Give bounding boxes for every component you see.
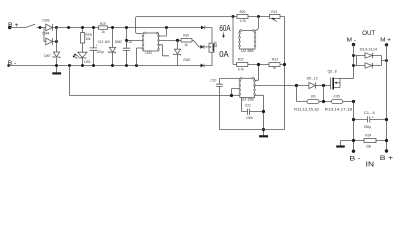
svg-text:330µ: 330µ: [364, 125, 371, 129]
svg-text:B +: B +: [380, 155, 393, 162]
svg-text:1k: 1k: [101, 30, 105, 34]
svg-text:R11,12,15,16: R11,12,15,16: [294, 108, 319, 112]
svg-text:U3 358: U3 358: [242, 97, 254, 101]
svg-text:CW2: CW2: [183, 58, 190, 62]
svg-text:+: +: [96, 43, 98, 47]
svg-text:R19: R19: [100, 22, 106, 26]
svg-text:M +: M +: [380, 37, 391, 43]
svg-text:100n: 100n: [246, 116, 253, 120]
svg-text:B -: B -: [350, 156, 361, 163]
svg-text:R23: R23: [272, 58, 278, 62]
svg-text:10R: 10R: [214, 41, 218, 48]
svg-text:CW4: CW4: [42, 32, 49, 36]
svg-text:R20: R20: [240, 10, 246, 14]
svg-text:R21: R21: [271, 10, 277, 14]
svg-text:C10: C10: [210, 78, 216, 82]
svg-text:U2 358: U2 358: [241, 49, 254, 53]
svg-text:U41: U41: [145, 51, 152, 55]
svg-text:OUT: OUT: [362, 31, 375, 37]
svg-text:+: +: [372, 115, 374, 119]
svg-text:D3,4,13,14: D3,4,13,14: [360, 47, 378, 51]
svg-text:R13,14,17,18: R13,14,17,18: [325, 108, 353, 112]
svg-text:IN: IN: [366, 162, 374, 169]
svg-text:R22: R22: [238, 58, 244, 62]
svg-text:4.7k: 4.7k: [240, 19, 246, 23]
svg-text:10k: 10k: [85, 37, 91, 41]
svg-text:100µ: 100µ: [96, 50, 103, 54]
svg-text:0A: 0A: [219, 49, 229, 59]
svg-text:4.7k: 4.7k: [238, 68, 244, 72]
svg-text:Q5...8: Q5...8: [328, 69, 337, 73]
svg-text:CW3: CW3: [42, 19, 49, 23]
svg-text:1k: 1k: [184, 43, 188, 47]
svg-text:DW2: DW2: [115, 40, 122, 44]
svg-text:C1...4: C1...4: [364, 111, 375, 115]
svg-text:60A: 60A: [219, 23, 231, 33]
svg-text:C12 16V: C12 16V: [98, 40, 111, 44]
svg-text:D9...12: D9...12: [307, 77, 318, 81]
svg-text:R24: R24: [365, 133, 371, 137]
svg-text:DS1: DS1: [84, 60, 90, 64]
svg-text:0.05: 0.05: [334, 95, 340, 99]
svg-text:1k: 1k: [273, 66, 277, 70]
svg-text:R20: R20: [183, 34, 189, 38]
svg-text:CW7: CW7: [44, 54, 51, 58]
svg-text:M -: M -: [347, 37, 357, 43]
svg-text:20k: 20k: [366, 144, 372, 148]
svg-text:C21: C21: [245, 103, 251, 107]
svg-text:100: 100: [310, 95, 316, 99]
